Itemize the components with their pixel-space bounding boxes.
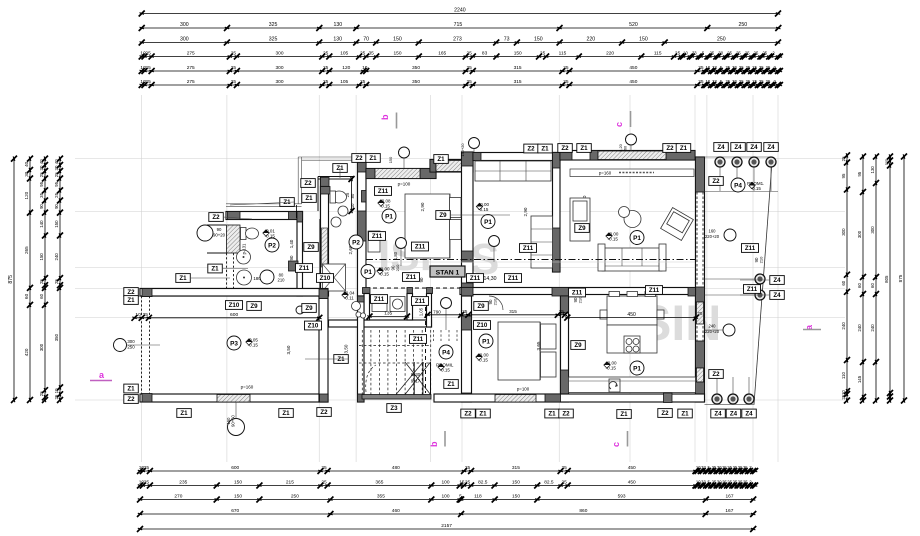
svg-text:25: 25 bbox=[752, 79, 757, 84]
svg-text:300: 300 bbox=[180, 22, 189, 28]
svg-text:Z9: Z9 bbox=[305, 305, 313, 312]
svg-text:220+20: 220+20 bbox=[705, 234, 720, 239]
svg-text:Z1: Z1 bbox=[580, 145, 588, 152]
svg-text:2157: 2157 bbox=[441, 523, 452, 529]
svg-text:Z9: Z9 bbox=[574, 342, 582, 349]
svg-text:82.5: 82.5 bbox=[544, 480, 554, 486]
svg-text:60: 60 bbox=[24, 293, 29, 299]
svg-text:350: 350 bbox=[412, 65, 420, 71]
svg-text:450: 450 bbox=[629, 79, 637, 85]
svg-text:25: 25 bbox=[39, 172, 44, 177]
svg-text:33: 33 bbox=[712, 65, 717, 70]
svg-text:150: 150 bbox=[393, 51, 401, 57]
svg-text:Z1: Z1 bbox=[541, 146, 549, 153]
svg-text:315: 315 bbox=[509, 309, 517, 314]
svg-text:10: 10 bbox=[705, 65, 710, 70]
svg-text:150: 150 bbox=[534, 37, 543, 43]
svg-text:25: 25 bbox=[54, 172, 59, 177]
svg-text:25: 25 bbox=[323, 51, 329, 57]
svg-text:Z4: Z4 bbox=[750, 144, 758, 151]
svg-text:c: c bbox=[614, 122, 624, 127]
svg-text:25: 25 bbox=[739, 65, 744, 70]
svg-text:Z11: Z11 bbox=[470, 275, 481, 282]
svg-text:Z11: Z11 bbox=[415, 298, 426, 305]
svg-text:235: 235 bbox=[179, 480, 187, 486]
svg-text:9x17: 9x17 bbox=[411, 379, 421, 384]
svg-text:40: 40 bbox=[39, 159, 44, 164]
svg-text:300: 300 bbox=[275, 51, 283, 57]
svg-text:25: 25 bbox=[766, 79, 771, 84]
svg-text:90: 90 bbox=[289, 255, 294, 260]
svg-text:25: 25 bbox=[54, 279, 59, 284]
svg-text:30: 30 bbox=[24, 171, 29, 177]
svg-text:60: 60 bbox=[857, 283, 862, 288]
svg-text:Z2: Z2 bbox=[712, 178, 720, 185]
svg-text:Z9: Z9 bbox=[578, 225, 586, 232]
svg-text:Z11: Z11 bbox=[415, 244, 426, 251]
svg-text:Z3: Z3 bbox=[390, 405, 398, 412]
svg-text:P1: P1 bbox=[633, 365, 641, 372]
svg-text:25: 25 bbox=[360, 51, 366, 57]
svg-text:300: 300 bbox=[275, 65, 283, 71]
svg-text:Z9: Z9 bbox=[439, 212, 447, 219]
svg-text:25: 25 bbox=[762, 51, 767, 56]
svg-text:Z4: Z4 bbox=[730, 411, 738, 418]
svg-text:25: 25 bbox=[560, 311, 566, 316]
svg-text:25: 25 bbox=[841, 394, 846, 399]
svg-text:82.5: 82.5 bbox=[478, 480, 488, 486]
svg-text:160: 160 bbox=[709, 229, 717, 234]
svg-text:Z1: Z1 bbox=[305, 195, 313, 202]
svg-text:25: 25 bbox=[465, 465, 471, 471]
svg-text:25: 25 bbox=[725, 79, 730, 84]
svg-text:25: 25 bbox=[39, 279, 44, 284]
svg-text:-0.15: -0.15 bbox=[751, 186, 762, 191]
svg-text:33: 33 bbox=[701, 465, 706, 470]
svg-text:-0.15: -0.15 bbox=[379, 271, 390, 276]
svg-text:83: 83 bbox=[482, 51, 488, 57]
svg-text:25: 25 bbox=[39, 391, 44, 396]
svg-text:25: 25 bbox=[462, 309, 468, 314]
svg-text:875: 875 bbox=[8, 275, 14, 284]
svg-text:90: 90 bbox=[39, 204, 44, 209]
svg-text:Z11: Z11 bbox=[649, 287, 660, 294]
svg-text:315: 315 bbox=[514, 65, 522, 71]
svg-text:10: 10 bbox=[135, 312, 141, 318]
svg-text:95: 95 bbox=[841, 173, 846, 178]
svg-text:25: 25 bbox=[360, 79, 366, 85]
svg-text:Z11: Z11 bbox=[413, 336, 424, 343]
svg-text:105: 105 bbox=[340, 79, 348, 85]
svg-text:70: 70 bbox=[363, 37, 369, 43]
svg-text:P1: P1 bbox=[633, 235, 641, 242]
svg-text:Z1: Z1 bbox=[447, 381, 455, 388]
svg-text:Z1: Z1 bbox=[211, 266, 219, 273]
svg-text:3,50: 3,50 bbox=[344, 344, 349, 353]
svg-text:355: 355 bbox=[377, 494, 385, 500]
svg-text:240: 240 bbox=[709, 324, 717, 329]
svg-text:30: 30 bbox=[732, 79, 737, 84]
svg-text:250: 250 bbox=[717, 37, 726, 43]
svg-text:Z1: Z1 bbox=[548, 411, 556, 418]
svg-text:3,50: 3,50 bbox=[286, 345, 291, 354]
svg-text:P2: P2 bbox=[352, 239, 360, 246]
svg-text:Z11: Z11 bbox=[523, 245, 534, 252]
svg-text:25: 25 bbox=[710, 51, 715, 56]
svg-text:250: 250 bbox=[291, 494, 299, 500]
svg-text:P2: P2 bbox=[268, 242, 276, 249]
svg-text:c: c bbox=[611, 442, 621, 447]
svg-text:b: b bbox=[380, 114, 390, 120]
svg-text:300: 300 bbox=[275, 79, 283, 85]
svg-text:P4: P4 bbox=[734, 182, 742, 189]
svg-text:25: 25 bbox=[725, 65, 730, 70]
svg-text:Z2: Z2 bbox=[561, 145, 569, 152]
svg-text:25: 25 bbox=[562, 480, 568, 486]
svg-text:130: 130 bbox=[333, 22, 342, 28]
svg-text:90: 90 bbox=[54, 204, 59, 209]
svg-text:p=100: p=100 bbox=[398, 182, 411, 187]
svg-text:-0.11: -0.11 bbox=[344, 295, 354, 300]
svg-text:480: 480 bbox=[392, 465, 400, 471]
svg-text:600: 600 bbox=[231, 465, 239, 471]
svg-text:Z9: Z9 bbox=[250, 303, 258, 310]
svg-text:b: b bbox=[429, 441, 439, 447]
svg-text:Z11: Z11 bbox=[572, 290, 583, 297]
svg-text:Z2: Z2 bbox=[527, 146, 535, 153]
svg-text:Z1: Z1 bbox=[680, 145, 688, 152]
svg-text:593: 593 bbox=[618, 494, 626, 500]
svg-text:300: 300 bbox=[180, 37, 189, 43]
svg-text:300: 300 bbox=[857, 230, 862, 238]
svg-text:33: 33 bbox=[692, 51, 697, 56]
svg-text:25: 25 bbox=[759, 79, 764, 84]
svg-text:145: 145 bbox=[857, 375, 862, 383]
svg-text:60: 60 bbox=[870, 283, 875, 288]
svg-text:25: 25 bbox=[752, 65, 757, 70]
svg-text:860: 860 bbox=[579, 508, 587, 514]
svg-text:105: 105 bbox=[340, 51, 348, 57]
svg-text:273: 273 bbox=[453, 37, 462, 43]
svg-text:25: 25 bbox=[467, 51, 473, 57]
svg-text:Z11: Z11 bbox=[372, 233, 383, 240]
svg-text:25: 25 bbox=[743, 465, 748, 470]
svg-text:P4: P4 bbox=[442, 349, 450, 356]
svg-text:325: 325 bbox=[269, 37, 278, 43]
svg-text:25: 25 bbox=[54, 192, 59, 197]
svg-text:Z2: Z2 bbox=[355, 155, 363, 162]
svg-text:Z4: Z4 bbox=[767, 144, 775, 151]
svg-text:Z11: Z11 bbox=[406, 274, 417, 281]
svg-text:10: 10 bbox=[841, 390, 846, 395]
svg-text:420: 420 bbox=[24, 348, 29, 356]
svg-text:40: 40 bbox=[24, 161, 29, 167]
svg-text:STAN 1: STAN 1 bbox=[436, 270, 460, 277]
svg-text:250: 250 bbox=[738, 22, 747, 28]
svg-text:300: 300 bbox=[127, 339, 135, 344]
svg-text:25: 25 bbox=[321, 465, 327, 471]
svg-text:33: 33 bbox=[712, 79, 717, 84]
svg-text:180: 180 bbox=[253, 276, 261, 281]
svg-text:130: 130 bbox=[870, 166, 875, 174]
svg-text:3,65: 3,65 bbox=[536, 341, 541, 350]
svg-text:150: 150 bbox=[54, 220, 59, 228]
svg-text:210: 210 bbox=[759, 256, 764, 263]
svg-text:450: 450 bbox=[628, 480, 636, 486]
svg-text:-0.15: -0.15 bbox=[248, 342, 259, 347]
svg-text:240: 240 bbox=[841, 322, 846, 330]
svg-text:10: 10 bbox=[362, 65, 368, 71]
svg-text:30: 30 bbox=[718, 51, 723, 56]
svg-text:25: 25 bbox=[563, 79, 569, 85]
svg-text:Z2: Z2 bbox=[212, 214, 220, 221]
svg-text:240: 240 bbox=[54, 253, 59, 261]
svg-text:30: 30 bbox=[54, 165, 59, 170]
svg-text:Z4: Z4 bbox=[773, 292, 781, 299]
svg-text:10: 10 bbox=[54, 388, 59, 393]
svg-text:25: 25 bbox=[841, 156, 846, 161]
svg-text:Z1: Z1 bbox=[620, 411, 628, 418]
svg-text:25: 25 bbox=[743, 480, 748, 485]
svg-text:33: 33 bbox=[701, 480, 706, 485]
svg-text:25: 25 bbox=[766, 65, 771, 70]
svg-text:450: 450 bbox=[628, 465, 636, 471]
svg-text:30: 30 bbox=[732, 65, 737, 70]
svg-text:Z2: Z2 bbox=[666, 145, 674, 152]
svg-text:240: 240 bbox=[870, 324, 875, 332]
svg-text:Z2: Z2 bbox=[320, 409, 328, 416]
svg-text:35: 35 bbox=[369, 51, 375, 57]
svg-text:Z11: Z11 bbox=[299, 265, 310, 272]
svg-text:210: 210 bbox=[350, 203, 355, 211]
svg-text:10: 10 bbox=[705, 79, 710, 84]
svg-text:25: 25 bbox=[746, 79, 751, 84]
svg-text:150+20: 150+20 bbox=[460, 143, 465, 157]
svg-text:Z1: Z1 bbox=[681, 411, 689, 418]
svg-text:40: 40 bbox=[54, 159, 59, 164]
svg-text:Z11: Z11 bbox=[374, 296, 385, 303]
svg-text:150: 150 bbox=[234, 494, 242, 500]
svg-text:25: 25 bbox=[727, 51, 732, 56]
svg-text:300: 300 bbox=[39, 343, 44, 351]
svg-text:118: 118 bbox=[474, 494, 482, 500]
svg-text:300: 300 bbox=[841, 228, 846, 236]
svg-text:270: 270 bbox=[174, 494, 182, 500]
svg-text:60: 60 bbox=[841, 280, 846, 285]
svg-text:-0.15: -0.15 bbox=[440, 367, 451, 372]
svg-text:525: 525 bbox=[885, 159, 889, 165]
svg-text:25: 25 bbox=[745, 51, 750, 56]
svg-text:2,90: 2,90 bbox=[523, 207, 528, 216]
svg-text:715: 715 bbox=[454, 22, 463, 28]
svg-text:Z1: Z1 bbox=[479, 411, 487, 418]
svg-text:167: 167 bbox=[725, 508, 733, 514]
svg-text:120: 120 bbox=[24, 191, 29, 199]
svg-text:600: 600 bbox=[230, 312, 238, 318]
svg-text:450: 450 bbox=[629, 65, 637, 71]
svg-text:210: 210 bbox=[578, 296, 583, 303]
svg-text:1,80: 1,80 bbox=[393, 251, 398, 260]
svg-text:Z1: Z1 bbox=[179, 275, 187, 282]
svg-text:90: 90 bbox=[419, 277, 424, 282]
svg-text:25: 25 bbox=[323, 79, 329, 85]
svg-text:-0.15: -0.15 bbox=[608, 236, 619, 241]
svg-text:25: 25 bbox=[467, 65, 473, 71]
svg-text:Z1: Z1 bbox=[282, 410, 290, 417]
svg-text:95: 95 bbox=[54, 181, 59, 186]
svg-text:-0.15: -0.15 bbox=[380, 203, 391, 208]
svg-text:30: 30 bbox=[39, 165, 44, 170]
svg-text:Z1: Z1 bbox=[369, 155, 377, 162]
svg-text:14,30: 14,30 bbox=[484, 276, 497, 282]
svg-text:350: 350 bbox=[54, 333, 59, 341]
svg-text:Z9: Z9 bbox=[477, 303, 485, 310]
svg-text:25: 25 bbox=[321, 480, 327, 486]
svg-text:670: 670 bbox=[231, 508, 239, 514]
svg-text:80: 80 bbox=[350, 193, 355, 198]
svg-text:450: 450 bbox=[627, 312, 636, 318]
svg-text:25: 25 bbox=[231, 79, 237, 85]
svg-text:Z1: Z1 bbox=[127, 386, 135, 393]
svg-text:Z1: Z1 bbox=[180, 410, 188, 417]
svg-text:P1: P1 bbox=[364, 269, 372, 276]
svg-text:Z2: Z2 bbox=[464, 411, 472, 418]
svg-text:25: 25 bbox=[562, 465, 568, 471]
svg-text:25: 25 bbox=[144, 465, 150, 471]
svg-text:135: 135 bbox=[384, 311, 392, 317]
svg-text:315: 315 bbox=[512, 465, 520, 471]
svg-text:25: 25 bbox=[145, 65, 151, 71]
svg-text:Z10: Z10 bbox=[229, 302, 240, 309]
svg-text:220: 220 bbox=[606, 51, 614, 57]
svg-text:Z1: Z1 bbox=[437, 156, 445, 163]
svg-text:5: 5 bbox=[459, 494, 462, 500]
svg-text:Z4: Z4 bbox=[717, 144, 725, 151]
svg-text:220: 220 bbox=[586, 37, 595, 43]
svg-text:Z1: Z1 bbox=[337, 356, 345, 363]
svg-text:p-131: p-131 bbox=[242, 243, 247, 254]
svg-text:Z11: Z11 bbox=[508, 275, 519, 282]
svg-text:150: 150 bbox=[639, 37, 648, 43]
svg-text:60: 60 bbox=[39, 293, 44, 298]
svg-text:300: 300 bbox=[870, 226, 875, 234]
svg-text:215: 215 bbox=[286, 480, 294, 486]
svg-text:P3: P3 bbox=[230, 340, 238, 347]
svg-text:Z1: Z1 bbox=[127, 297, 135, 304]
svg-text:Z4: Z4 bbox=[714, 411, 722, 418]
svg-text:275: 275 bbox=[187, 79, 195, 85]
svg-text:100: 100 bbox=[441, 480, 449, 486]
svg-text:460: 460 bbox=[392, 508, 400, 514]
svg-text:P1: P1 bbox=[484, 219, 492, 226]
svg-text:275: 275 bbox=[187, 65, 195, 71]
svg-text:165: 165 bbox=[438, 51, 446, 57]
svg-text:365: 365 bbox=[375, 480, 383, 486]
svg-text:120: 120 bbox=[342, 65, 350, 71]
svg-text:-0.15: -0.15 bbox=[478, 357, 489, 362]
svg-text:25: 25 bbox=[145, 51, 151, 57]
svg-text:Z2: Z2 bbox=[562, 411, 570, 418]
svg-text:100: 100 bbox=[441, 494, 449, 500]
svg-text:140: 140 bbox=[39, 220, 44, 228]
svg-text:25: 25 bbox=[563, 65, 569, 71]
svg-text:167: 167 bbox=[725, 494, 733, 500]
svg-text:2240: 2240 bbox=[454, 8, 466, 14]
svg-text:520: 520 bbox=[629, 22, 638, 28]
svg-text:115: 115 bbox=[654, 51, 662, 57]
svg-text:805: 805 bbox=[884, 275, 889, 283]
svg-text:350: 350 bbox=[412, 79, 420, 85]
svg-text:25: 25 bbox=[746, 65, 751, 70]
svg-text:25: 25 bbox=[759, 65, 764, 70]
svg-text:-0.15: -0.15 bbox=[265, 233, 276, 238]
svg-text:p=100: p=100 bbox=[517, 387, 530, 392]
svg-text:150: 150 bbox=[393, 37, 402, 43]
svg-text:275: 275 bbox=[187, 51, 195, 57]
svg-text:2,90: 2,90 bbox=[420, 202, 425, 211]
svg-text:95: 95 bbox=[857, 171, 862, 176]
svg-text:25: 25 bbox=[739, 79, 744, 84]
svg-text:90+20: 90+20 bbox=[213, 233, 226, 238]
svg-text:265: 265 bbox=[24, 246, 29, 254]
svg-text:110: 110 bbox=[841, 372, 846, 380]
svg-text:25: 25 bbox=[754, 51, 759, 56]
svg-text:Z4: Z4 bbox=[773, 277, 781, 284]
svg-text:Z2: Z2 bbox=[661, 410, 669, 417]
svg-text:25: 25 bbox=[465, 480, 471, 486]
svg-text:90: 90 bbox=[217, 227, 222, 232]
svg-text:25: 25 bbox=[697, 311, 703, 316]
svg-text:73: 73 bbox=[504, 37, 510, 43]
svg-text:210: 210 bbox=[493, 298, 498, 305]
svg-text:25: 25 bbox=[231, 65, 237, 71]
svg-text:25: 25 bbox=[467, 79, 473, 85]
svg-text:35: 35 bbox=[39, 192, 44, 197]
svg-text:25: 25 bbox=[143, 312, 149, 318]
svg-text:150: 150 bbox=[512, 480, 520, 486]
svg-text:-0.15: -0.15 bbox=[478, 207, 489, 212]
svg-text:150: 150 bbox=[388, 156, 393, 163]
svg-text:P1: P1 bbox=[482, 338, 490, 345]
svg-text:Z10: Z10 bbox=[477, 322, 488, 329]
svg-text:Z2: Z2 bbox=[304, 180, 312, 187]
svg-text:Z11: Z11 bbox=[747, 286, 758, 293]
svg-text:150: 150 bbox=[512, 494, 520, 500]
svg-text:210: 210 bbox=[278, 278, 286, 283]
svg-text:25: 25 bbox=[145, 79, 151, 85]
svg-text:790: 790 bbox=[433, 310, 441, 315]
svg-text:115: 115 bbox=[559, 51, 567, 57]
svg-text:-0.15: -0.15 bbox=[606, 365, 617, 370]
svg-text:1,05: 1,05 bbox=[419, 307, 424, 316]
svg-text:8x30: 8x30 bbox=[411, 372, 421, 377]
svg-text:875: 875 bbox=[898, 274, 903, 282]
svg-text:25: 25 bbox=[736, 51, 741, 56]
svg-text:10: 10 bbox=[683, 51, 688, 56]
svg-text:25: 25 bbox=[323, 65, 329, 71]
svg-text:Z2: Z2 bbox=[127, 396, 135, 403]
svg-text:25: 25 bbox=[540, 51, 546, 57]
svg-text:25: 25 bbox=[54, 394, 59, 399]
svg-text:Z9: Z9 bbox=[307, 244, 315, 251]
svg-text:25: 25 bbox=[144, 480, 150, 486]
svg-text:210: 210 bbox=[395, 264, 400, 271]
svg-text:p=160: p=160 bbox=[241, 385, 254, 390]
svg-text:Z4: Z4 bbox=[734, 144, 742, 151]
svg-text:1,40: 1,40 bbox=[289, 239, 294, 248]
svg-text:Z10: Z10 bbox=[308, 323, 319, 330]
svg-text:Z10: Z10 bbox=[320, 275, 331, 282]
